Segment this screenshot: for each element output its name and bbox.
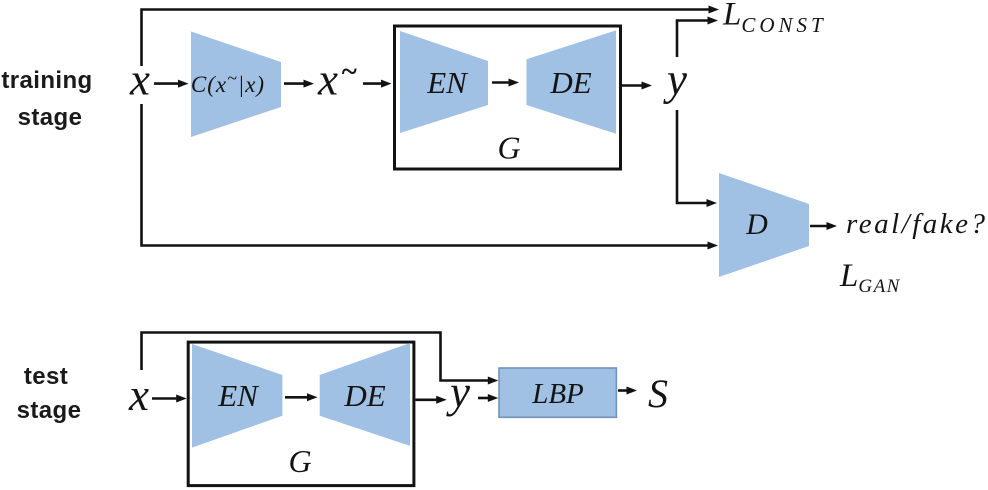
box G (training generator): [395, 26, 621, 169]
wire: y to D: [677, 110, 717, 207]
block EN encoder (training): [400, 31, 488, 133]
arrow: G to y (test): [416, 396, 447, 404]
svg-text:stage: stage: [17, 397, 82, 424]
svg-text:LCONST: LCONST: [722, 0, 827, 37]
svg-text:EN: EN: [217, 378, 260, 413]
svg-text:training: training: [1, 67, 92, 94]
block DE decoder (test): [320, 343, 410, 446]
wire: x to LBP (test bypass): [142, 333, 499, 385]
svg-text:DE: DE: [549, 65, 591, 100]
svg-text:test: test: [24, 363, 68, 390]
block DE decoder (training): [527, 30, 617, 133]
svg-text:x: x: [317, 55, 338, 105]
arrow: D to real/fake?: [810, 222, 837, 230]
svg-text:y: y: [663, 55, 687, 105]
arrow: x to G (test): [152, 395, 187, 403]
arrow: x to C: [154, 80, 189, 88]
svg-text:~: ~: [341, 56, 358, 88]
arrow: C to x~: [284, 80, 314, 88]
arrow: x~ to G: [363, 80, 392, 88]
svg-text:stage: stage: [18, 104, 83, 131]
svg-text:DE: DE: [343, 378, 385, 413]
block C corruption trapezoid: [191, 32, 281, 138]
arrow: y to LBP: [478, 394, 498, 402]
label: training stage: [1, 67, 92, 131]
block EN encoder (test): [192, 344, 282, 448]
svg-text:y: y: [446, 367, 470, 417]
arrow: EN to DE (test): [285, 393, 318, 401]
svg-text:LGAN: LGAN: [839, 258, 901, 297]
block D discriminator trapezoid: [719, 173, 809, 277]
arrow: EN to DE (training): [492, 79, 519, 87]
svg-text:x: x: [128, 370, 149, 420]
label: test stage: [17, 363, 82, 424]
svg-text:x: x: [129, 55, 150, 105]
wire: y to L_CONST: [677, 17, 718, 58]
svg-text:real/fake?: real/fake?: [846, 208, 988, 240]
svg-text:S: S: [648, 371, 668, 416]
wire: x to D (bottom feedback): [142, 104, 719, 250]
arrow: G to y: [622, 82, 652, 90]
box G (test generator): [188, 342, 414, 486]
svg-text:G: G: [288, 443, 311, 479]
arrow: LBP to S: [618, 387, 637, 395]
svg-text:EN: EN: [426, 65, 469, 100]
svg-text:D: D: [745, 208, 768, 241]
svg-text:G: G: [497, 130, 520, 166]
wire: x to L_CONST (top feedback): [142, 6, 720, 67]
node x~: [317, 55, 357, 105]
block LBP: [499, 368, 616, 417]
svg-text:LBP: LBP: [531, 378, 584, 410]
